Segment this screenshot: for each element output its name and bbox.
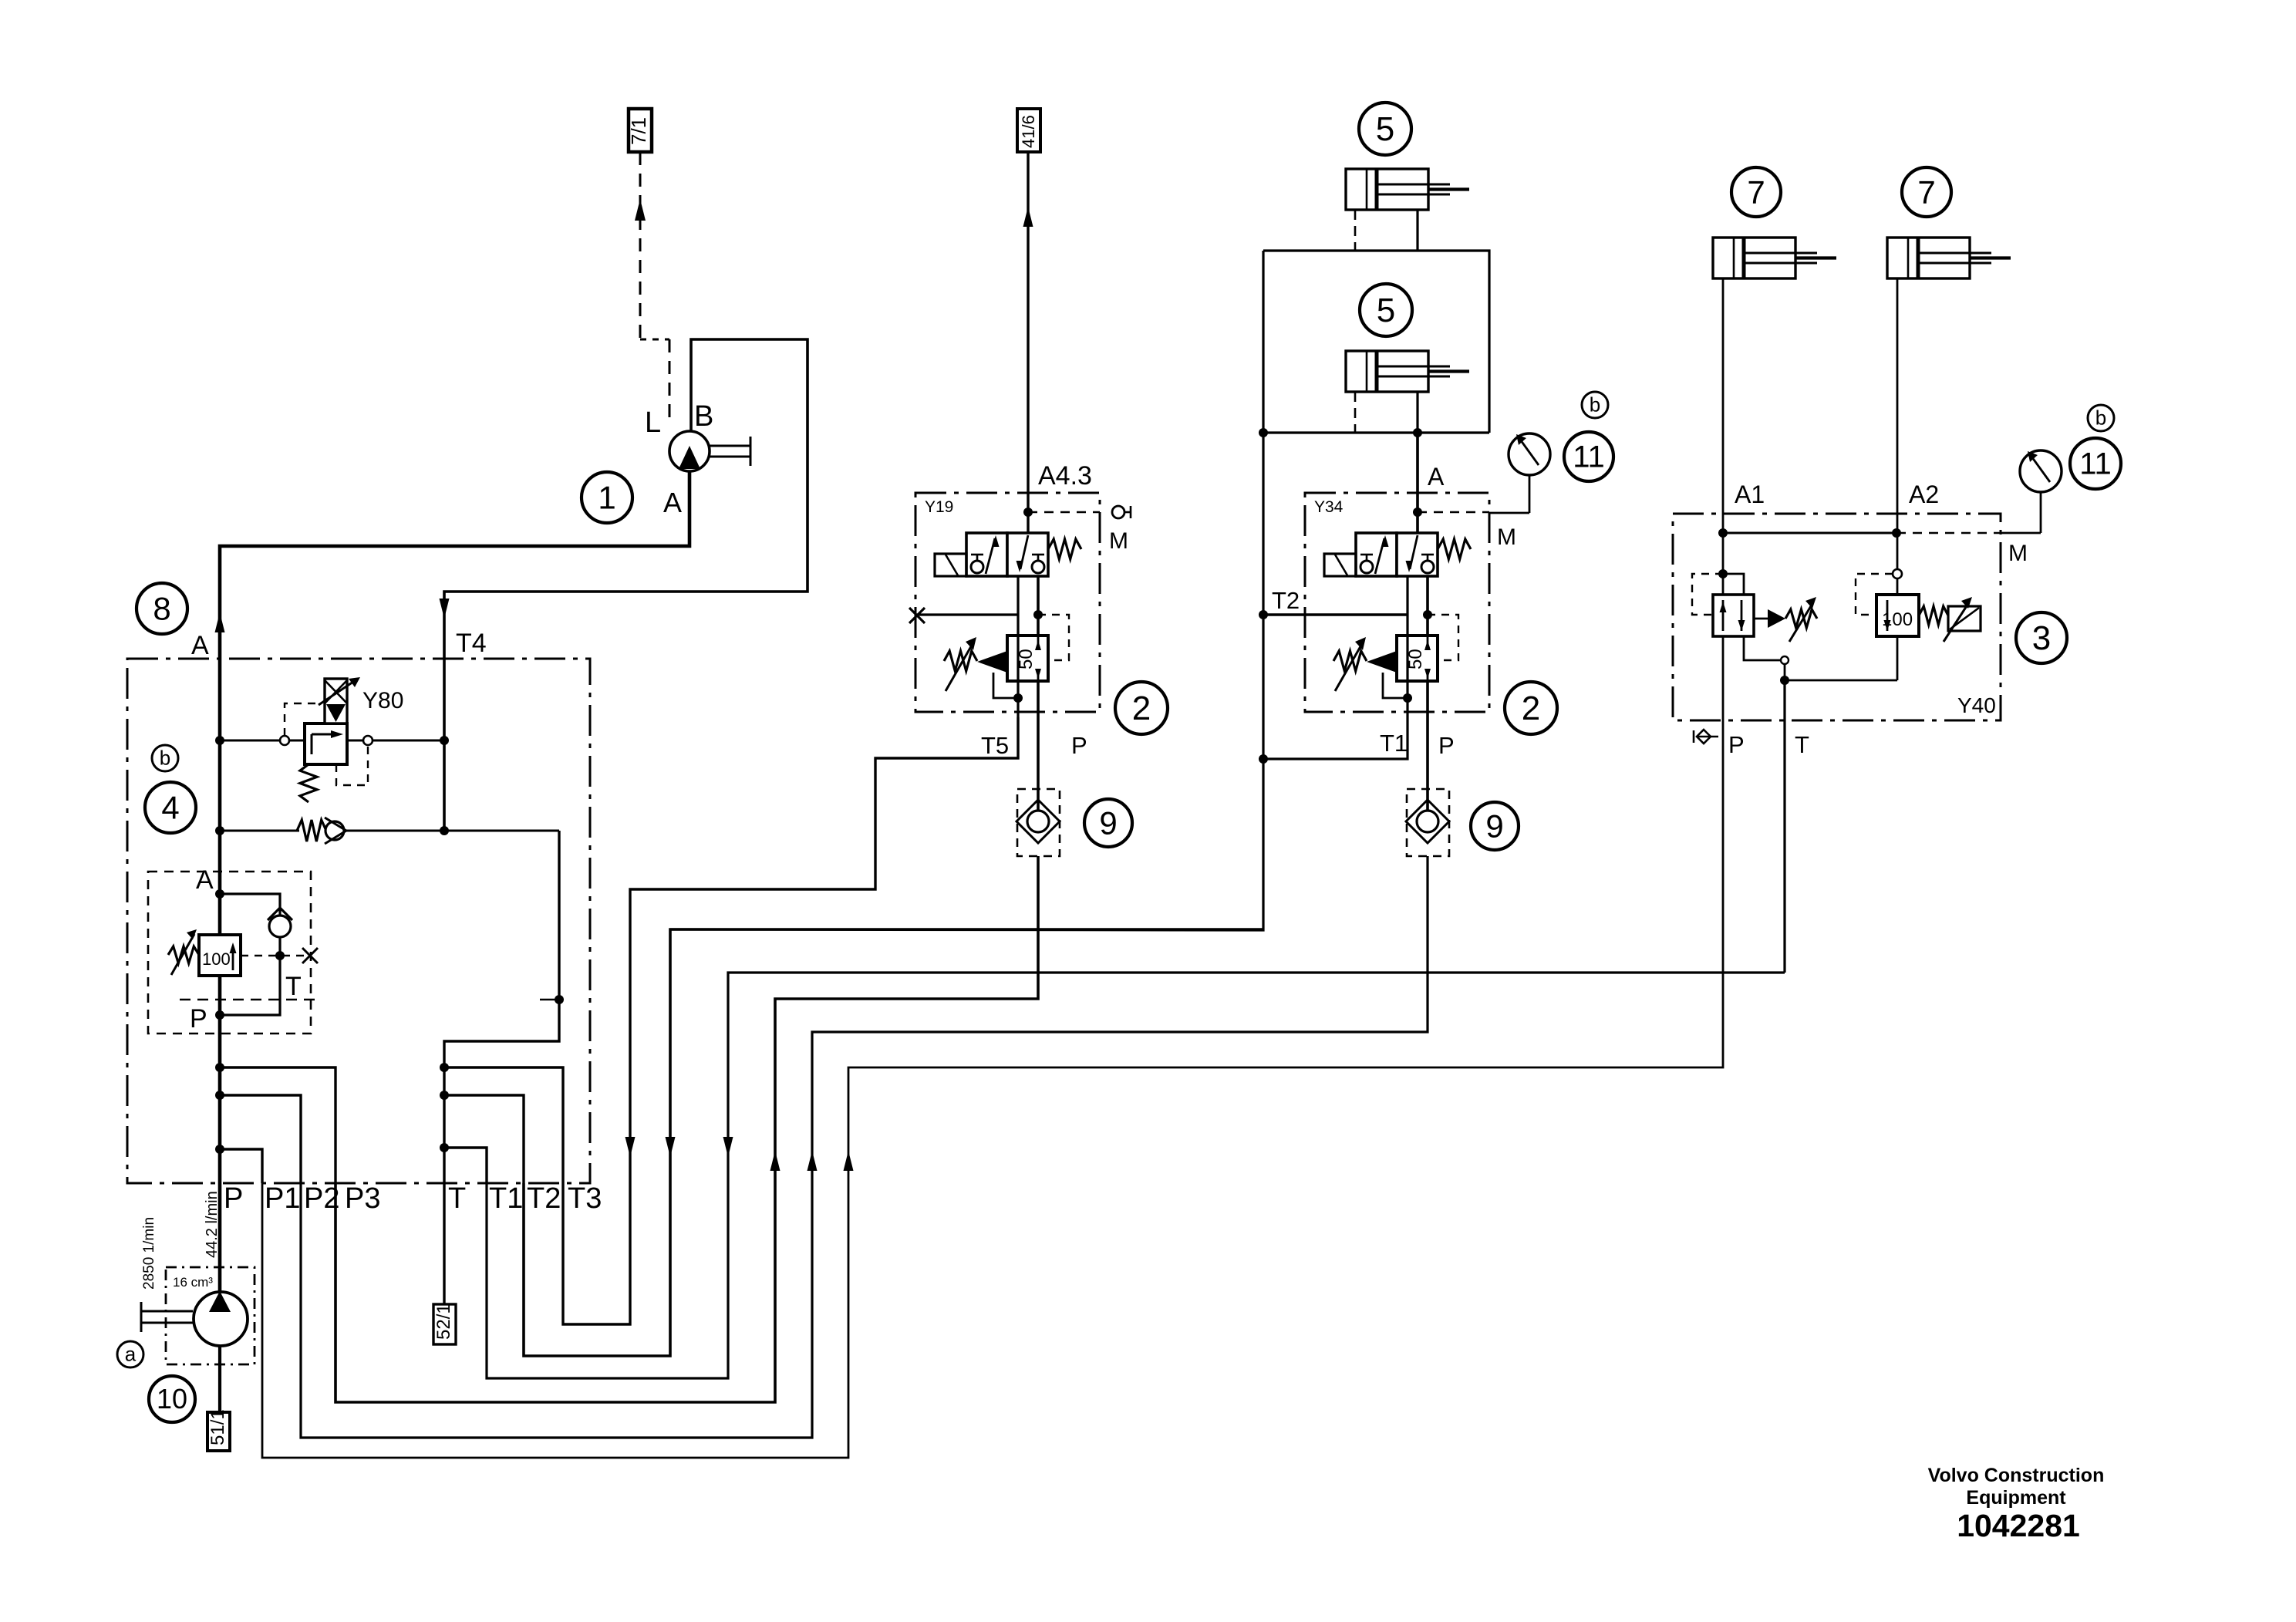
svg-text:P1: P1 xyxy=(265,1182,300,1215)
inner pilot box of item 4 xyxy=(148,872,311,1034)
pilot dashed (Y40 relief) xyxy=(1856,574,1893,615)
check valve (inner) xyxy=(220,894,280,915)
valve block Y34, item 2 xyxy=(1305,493,1489,712)
M test line of Y34 xyxy=(1418,511,1489,514)
wire check to P port xyxy=(220,937,280,1015)
svg-text:52/1: 52/1 xyxy=(433,1303,454,1340)
item 2 (Y19) xyxy=(1115,682,1168,734)
relief valve 100 (inner) xyxy=(199,935,241,976)
wire P port of Y34 xyxy=(1426,576,1429,636)
svg-text:P: P xyxy=(1438,732,1455,759)
pilot dashed of relief 50 (Y19) xyxy=(1038,615,1069,660)
item 2 (Y34) xyxy=(1505,682,1557,734)
item 8 xyxy=(137,583,187,634)
svg-text:a: a xyxy=(125,1343,137,1366)
svg-text:9: 9 xyxy=(1099,804,1117,841)
wire T1 stub xyxy=(444,1148,487,1183)
wire check line to T drain xyxy=(444,831,559,1183)
svg-text:M: M xyxy=(2008,541,2028,566)
wire Y40 T port xyxy=(1783,680,1785,973)
svg-text:2: 2 xyxy=(1522,690,1540,727)
valve Y80 xyxy=(305,723,347,764)
wire A2 xyxy=(1896,278,1899,595)
svg-text:Y34: Y34 xyxy=(1314,498,1344,516)
wire pump to connector 51/1 xyxy=(218,1346,221,1412)
svg-text:100: 100 xyxy=(202,949,231,969)
svg-text:2850 1/min: 2850 1/min xyxy=(141,1217,157,1290)
svg-text:16 cm³: 16 cm³ xyxy=(173,1275,213,1290)
wire drain L (dashed) xyxy=(639,152,642,339)
P test symbol xyxy=(1697,736,1718,738)
relief valve 50 (Y34) xyxy=(1397,636,1438,681)
svg-text:9: 9 xyxy=(1485,808,1503,844)
cylinder 5 (upper) xyxy=(1346,169,1428,210)
connector 41/6 xyxy=(1017,109,1040,152)
Y80 pilot loop (dashed) xyxy=(285,703,315,736)
svg-text:3: 3 xyxy=(2032,619,2051,657)
cylinder 7 (right) xyxy=(1887,238,1970,278)
item 10 xyxy=(149,1376,195,1422)
svg-text:1042281: 1042281 xyxy=(1957,1508,2080,1543)
relief valve 100 (Y40) xyxy=(1876,595,1919,636)
wire P3 stub xyxy=(220,1067,335,1183)
item 1 xyxy=(582,472,632,523)
wire T3 to valve A4.3 T5 (snake 1) xyxy=(563,717,1018,1324)
svg-text:Y80: Y80 xyxy=(362,688,403,713)
svg-text:b: b xyxy=(160,747,170,770)
T drain dashed (inner) xyxy=(180,999,320,1000)
svg-text:7: 7 xyxy=(1747,174,1765,210)
wire T1 to valve Y40 T (snake 3) xyxy=(487,973,1785,1378)
connector 7/1 xyxy=(629,109,652,152)
pilot dashed (Y40 left) xyxy=(1692,574,1723,615)
cylinder 5 upper port wires xyxy=(1354,210,1357,251)
label b (left) xyxy=(152,745,178,771)
item 7 (right) xyxy=(1902,167,1951,217)
wire Y80 pilot line xyxy=(220,740,444,742)
label b (Y34) xyxy=(1582,392,1608,418)
M port symbol of Y19 xyxy=(1112,506,1124,518)
wire P2 stub xyxy=(220,1095,301,1183)
svg-text:A: A xyxy=(1428,463,1445,491)
svg-text:5: 5 xyxy=(1376,110,1394,148)
svg-text:4: 4 xyxy=(161,789,179,825)
svg-text:P: P xyxy=(1728,731,1745,758)
M test line of Y19 xyxy=(1028,511,1100,514)
svg-text:Y19: Y19 xyxy=(925,498,953,516)
svg-text:T2: T2 xyxy=(527,1182,561,1215)
pilot dashed of relief 50 (Y34) xyxy=(1428,615,1458,660)
svg-text:T: T xyxy=(1795,731,1809,758)
wire P1 to valve Y40 P (snake 6) xyxy=(262,746,1723,1458)
svg-text:P3: P3 xyxy=(345,1182,380,1215)
svg-text:B: B xyxy=(694,400,713,433)
wire P1 stub xyxy=(220,1149,262,1183)
manifold enclosure (item 4, section b) xyxy=(127,659,590,1183)
item 11 (Y40) xyxy=(2070,438,2121,489)
wire P port of Y19 xyxy=(1037,576,1040,636)
svg-text:2: 2 xyxy=(1132,690,1151,727)
svg-text:5: 5 xyxy=(1377,292,1395,329)
svg-text:T2: T2 xyxy=(1272,587,1300,614)
item 3 xyxy=(2016,612,2067,663)
wire A port of Y19 xyxy=(1027,432,1029,533)
svg-text:P: P xyxy=(190,1004,207,1034)
drain of counterbalance xyxy=(1744,636,1785,660)
svg-text:T3: T3 xyxy=(568,1182,602,1215)
svg-text:A: A xyxy=(663,487,682,518)
svg-text:Y40: Y40 xyxy=(1957,693,1996,717)
svg-text:10: 10 xyxy=(157,1383,187,1415)
svg-text:M: M xyxy=(1497,524,1516,550)
wire T2 stub xyxy=(444,1095,524,1183)
wire P2 to valve Y34 P (snake 5) xyxy=(301,856,1428,1438)
plug X of Y19 T line xyxy=(916,613,1018,615)
svg-text:A: A xyxy=(191,631,209,660)
wire T to connector 52/1 xyxy=(443,1183,445,1304)
item 7 (left) xyxy=(1731,167,1781,217)
M line inside Y40 xyxy=(1723,532,1896,534)
label b (Y40) xyxy=(2088,405,2114,431)
svg-text:A4.3: A4.3 xyxy=(1038,461,1092,491)
svg-text:A: A xyxy=(196,865,214,895)
connector 51/1 xyxy=(207,1412,230,1451)
svg-text:P: P xyxy=(1071,732,1087,759)
svg-text:11: 11 xyxy=(1573,440,1605,474)
check valve 9 (Y34 P) xyxy=(1407,789,1449,856)
valve block A4.3 (Y19), item 2 xyxy=(915,493,1100,712)
item 9 (right) xyxy=(1471,802,1519,850)
svg-text:T1: T1 xyxy=(489,1182,523,1215)
svg-text:8: 8 xyxy=(153,590,170,626)
wire T port of Y19 xyxy=(1017,576,1019,615)
wire P3 to valve A4.3 P (snake 4) xyxy=(335,856,1038,1402)
cylinder circuit wires (item 5) xyxy=(1263,251,1489,433)
plug X (inner) xyxy=(302,948,318,963)
svg-text:A1: A1 xyxy=(1735,481,1765,508)
svg-text:T5: T5 xyxy=(981,732,1009,759)
relief valve 50 (Y19) xyxy=(1007,636,1048,681)
wire A4.3 A to connector 41/6 xyxy=(1027,152,1029,432)
pump 10 xyxy=(194,1292,248,1346)
item 5 (lower) xyxy=(1360,284,1412,336)
svg-text:Equipment: Equipment xyxy=(1966,1487,2066,1509)
counterbalance valve (Y40 left) xyxy=(1723,574,1744,595)
drain of relief 100 xyxy=(1896,636,1899,680)
wire A1 xyxy=(1722,278,1725,595)
item 11 (Y34) xyxy=(1564,432,1613,481)
pump 10 enclosure xyxy=(166,1267,255,1364)
wire A to Y34 xyxy=(1416,433,1418,533)
cylinder 5 (lower) xyxy=(1346,351,1428,392)
spring check line (A to T4) xyxy=(220,830,299,832)
pressure gauge (Y40) xyxy=(2020,450,2062,492)
item 5 (upper) xyxy=(1359,103,1411,155)
svg-text:T: T xyxy=(448,1182,466,1215)
gauge M line (Y34) xyxy=(1489,512,1529,514)
check valve 9 (A4.3 P) xyxy=(1017,789,1060,856)
svg-text:L: L xyxy=(645,406,661,439)
wire Y40 P port xyxy=(1722,636,1725,746)
cylinder 7 (left) xyxy=(1713,238,1795,278)
svg-text:7/1: 7/1 xyxy=(627,117,650,145)
valve block Y40 enclosure (item 3) xyxy=(1673,514,2001,720)
wire pump B to manifold T4 xyxy=(444,339,807,831)
svg-text:A2: A2 xyxy=(1909,481,1939,508)
wire T port of Y34 xyxy=(1406,576,1408,615)
item 4 xyxy=(145,782,196,833)
pump motor 1 (L/B/A) xyxy=(669,431,710,471)
item 9 (left) xyxy=(1084,799,1132,847)
wire T3 stub xyxy=(444,1067,563,1183)
svg-text:b: b xyxy=(2095,406,2106,430)
connector 52/1 xyxy=(433,1304,456,1344)
svg-text:T: T xyxy=(285,972,302,1001)
pressure gauge (Y34) xyxy=(1509,433,1550,475)
svg-text:44.2 l/min: 44.2 l/min xyxy=(204,1191,221,1258)
relief drain of Y34 xyxy=(1383,673,1408,698)
relief drain of Y19 xyxy=(993,673,1018,698)
wire T1 of Y34 xyxy=(1263,717,1408,759)
cylinder 5 lower port wires xyxy=(1354,392,1357,433)
svg-text:7: 7 xyxy=(1917,174,1935,210)
svg-text:1: 1 xyxy=(598,479,615,515)
svg-text:11: 11 xyxy=(2079,447,2112,481)
svg-text:51/1: 51/1 xyxy=(207,1409,228,1445)
label a xyxy=(117,1341,143,1367)
svg-text:P: P xyxy=(224,1182,243,1215)
wire T2 of Y34 xyxy=(1263,613,1408,615)
svg-text:M: M xyxy=(1109,528,1128,554)
svg-text:41/6: 41/6 xyxy=(1019,115,1038,148)
svg-text:b: b xyxy=(1590,393,1600,416)
wire pump A to manifold port A xyxy=(220,472,689,1292)
svg-text:T1: T1 xyxy=(1380,730,1408,757)
wire T2 to cylinder circuit return (snake 2) xyxy=(524,929,1263,1356)
pilot dashed (inner relief) xyxy=(241,955,310,956)
svg-text:T4: T4 xyxy=(456,629,487,658)
wire A port of Y34 xyxy=(1416,432,1418,533)
svg-text:Volvo Construction: Volvo Construction xyxy=(1928,1465,2105,1486)
